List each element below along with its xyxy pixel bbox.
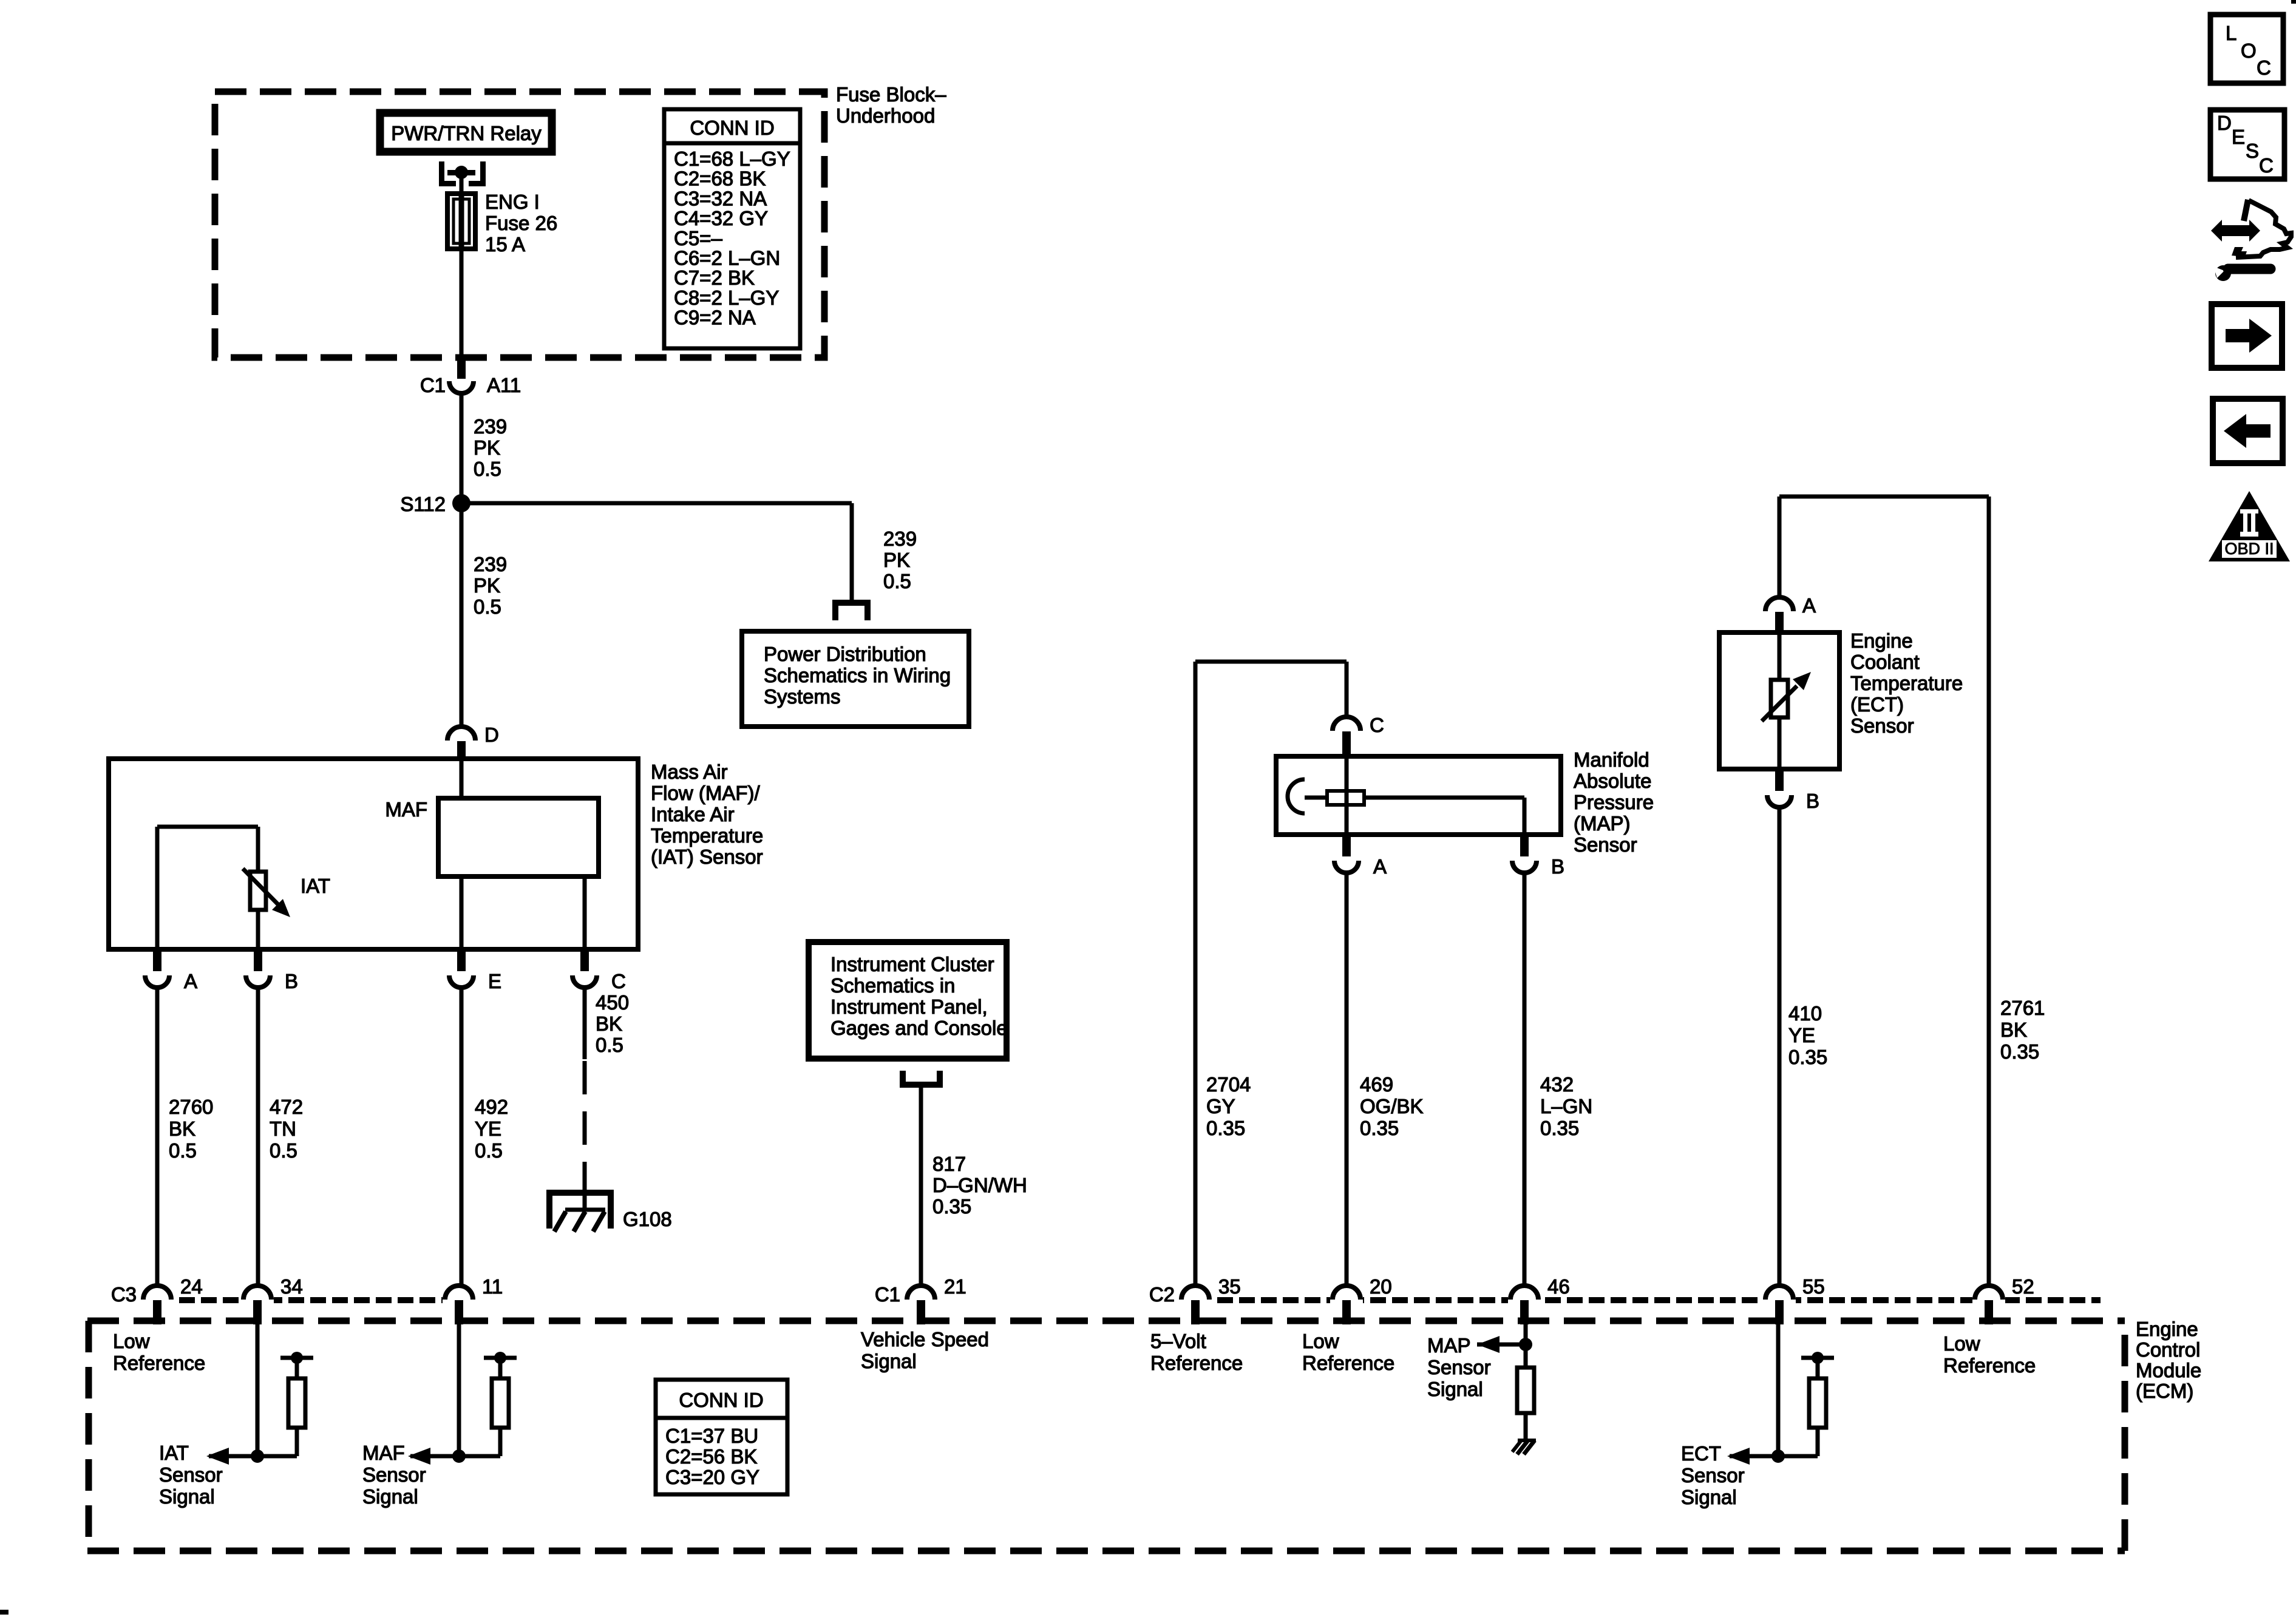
relay contact symbol: [439, 161, 486, 186]
svg-text:Control: Control: [2136, 1338, 2200, 1361]
svg-text:Schematics in Wiring: Schematics in Wiring: [764, 664, 951, 686]
svg-text:C6=2 L–GN: C6=2 L–GN: [674, 247, 780, 269]
svg-text:239: 239: [474, 553, 507, 575]
page corner mark (bottom left): [0, 1610, 8, 1615]
svg-text:35: 35: [1218, 1275, 1241, 1298]
connector pin B (MAP sensor): [1512, 835, 1564, 878]
svg-text:C: C: [1370, 714, 1384, 736]
svg-text:Reference: Reference: [113, 1352, 205, 1374]
label 472 TN 0.5: [270, 1096, 303, 1162]
svg-text:Signal: Signal: [362, 1485, 418, 1508]
svg-text:C: C: [2259, 154, 2274, 177]
svg-text:Absolute: Absolute: [1574, 770, 1651, 792]
svg-text:410: 410: [1788, 1002, 1822, 1025]
svg-text:24: 24: [180, 1275, 203, 1298]
conn id table (ECM) rows: [665, 1425, 759, 1488]
svg-text:Gages and Console: Gages and Console: [830, 1017, 1008, 1039]
svg-text:Fuse Block–: Fuse Block–: [836, 83, 946, 106]
svg-text:PK: PK: [474, 436, 500, 459]
svg-text:MAF: MAF: [385, 798, 427, 821]
off-page connector from instrument cluster: [900, 1071, 943, 1088]
label Low Reference (pin 20): [1302, 1330, 1394, 1374]
svg-text:Engine: Engine: [2136, 1318, 2198, 1340]
wire 450 BK (solid then dashed): [583, 989, 587, 1192]
svg-text:BK: BK: [2000, 1019, 2027, 1041]
splice S112: [400, 493, 470, 515]
svg-text:450: 450: [596, 991, 629, 1014]
svg-text:Signal: Signal: [861, 1350, 917, 1372]
svg-text:Manifold: Manifold: [1574, 748, 1649, 771]
svg-text:Mass Air: Mass Air: [651, 761, 728, 783]
svg-text:Instrument Panel,: Instrument Panel,: [830, 995, 988, 1018]
label 2704 GY 0.35: [1206, 1073, 1251, 1139]
wire 5-volt reference loop: [1195, 662, 1347, 1286]
svg-text:C5=–: C5=–: [674, 227, 722, 249]
wire 472 TN: [256, 989, 260, 1286]
svg-text:(IAT) Sensor: (IAT) Sensor: [651, 846, 763, 868]
svg-text:Signal: Signal: [1681, 1486, 1737, 1508]
wire relay to fuse: [460, 175, 464, 196]
ECM pin 55: [1763, 1275, 1825, 1324]
IAT loop wiring: [157, 827, 258, 949]
ECM pin 35 connector C2: [1149, 1275, 1241, 1324]
svg-text:2761: 2761: [2000, 997, 2045, 1019]
svg-text:IAT: IAT: [301, 875, 330, 897]
svg-text:GY: GY: [1206, 1095, 1235, 1117]
svg-text:C9=2 NA: C9=2 NA: [674, 307, 756, 329]
connector pin C (MAP sensor): [1333, 714, 1384, 758]
svg-text:E: E: [2232, 126, 2245, 148]
svg-text:432: 432: [1540, 1073, 1574, 1096]
svg-text:YE: YE: [1788, 1024, 1815, 1046]
conn id table rows: [674, 147, 790, 329]
wire 432 L-GN: [1523, 875, 1527, 1286]
svg-text:0.5: 0.5: [475, 1139, 503, 1162]
svg-text:20: 20: [1370, 1275, 1392, 1298]
ECM internal MAP signal network: [1477, 1324, 1534, 1440]
svg-text:5–Volt: 5–Volt: [1150, 1330, 1206, 1352]
svg-text:(MAP): (MAP): [1574, 812, 1631, 835]
svg-text:MAF: MAF: [362, 1442, 405, 1464]
svg-text:Sensor: Sensor: [1681, 1464, 1745, 1486]
label Vehicle Speed Signal: [861, 1328, 989, 1372]
ECM pin 21 connector C1: [875, 1275, 966, 1324]
svg-text:E: E: [488, 970, 501, 992]
svg-text:0.35: 0.35: [1540, 1117, 1579, 1139]
svg-text:469: 469: [1360, 1073, 1393, 1096]
svg-text:ECT: ECT: [1681, 1442, 1721, 1465]
label 817 D-GN/WH 0.35: [932, 1153, 1027, 1218]
svg-text:G108: G108: [623, 1208, 672, 1230]
svg-text:C3=20 GY: C3=20 GY: [665, 1466, 759, 1488]
svg-text:Instrument Cluster: Instrument Cluster: [830, 953, 994, 975]
relay PWR/TRN Relay box: [380, 113, 552, 152]
ECM pin 46: [1508, 1275, 1570, 1324]
svg-text:Flow (MAF)/: Flow (MAF)/: [651, 782, 760, 804]
MAF element box: [385, 798, 599, 876]
svg-text:Temperature: Temperature: [1850, 672, 1963, 694]
svg-text:YE: YE: [475, 1117, 501, 1140]
wire 239 PK upper: [460, 395, 464, 507]
svg-text:L: L: [2226, 22, 2237, 44]
svg-text:C: C: [611, 970, 626, 992]
svg-text:C3=32 NA: C3=32 NA: [674, 187, 767, 209]
label Mass Air Flow (MAF)/IAT Sensor: [651, 761, 763, 868]
ECM dashed enclosure: [87, 1321, 2125, 1551]
connector pin A (MAF sensor): [145, 949, 197, 992]
svg-text:Sensor: Sensor: [159, 1463, 223, 1486]
label Low Reference (pin 52): [1943, 1332, 2036, 1377]
svg-text:15 A: 15 A: [485, 233, 525, 256]
label 450 BK 0.5: [596, 991, 629, 1056]
page corner mark (top right): [2291, 0, 2296, 4]
wire MAF element to pin C: [583, 876, 587, 949]
svg-text:Low: Low: [113, 1330, 150, 1352]
label Engine Coolant Temperature (ECT) Sensor: [1850, 629, 1963, 737]
ECM pin 52: [1972, 1275, 2034, 1324]
MAF/IAT sensor box: [109, 759, 638, 949]
thermistor IAT: [243, 869, 330, 917]
svg-text:Sensor: Sensor: [1427, 1356, 1491, 1378]
svg-text:239: 239: [474, 415, 507, 438]
wire 2760 BK: [155, 989, 160, 1286]
svg-text:S112: S112: [400, 493, 446, 515]
connector pin A (ECT sensor): [1765, 594, 1816, 635]
svg-text:Sensor: Sensor: [362, 1463, 426, 1486]
wire through MAP element: [1345, 756, 1349, 835]
icon diagnostic tool: [2211, 200, 2291, 281]
label 432 L-GN 0.35: [1540, 1073, 1592, 1139]
svg-text:C2: C2: [1149, 1283, 1175, 1306]
label MAF Sensor Signal: [362, 1442, 426, 1508]
wire MAF element to pin E: [460, 876, 464, 949]
off-page connector to power distribution: [832, 600, 871, 620]
svg-text:Reference: Reference: [1150, 1352, 1243, 1374]
label MAP Sensor Signal: [1427, 1334, 1491, 1400]
svg-text:C1=37 BU: C1=37 BU: [665, 1425, 758, 1447]
wire S112 branch to power distribution: [461, 503, 852, 602]
ECM pin 11: [443, 1275, 503, 1324]
ECT sensor box: [1719, 632, 1839, 769]
ECM pin 34: [241, 1275, 303, 1324]
svg-text:OBD II: OBD II: [2224, 540, 2274, 558]
svg-text:C1=68 L–GY: C1=68 L–GY: [674, 147, 790, 170]
icon forward arrow box: [2212, 304, 2282, 368]
svg-text:Pressure: Pressure: [1574, 791, 1654, 813]
label 2760 BK 0.5: [169, 1096, 213, 1162]
svg-text:Low: Low: [1943, 1332, 1980, 1355]
ECM pin 24 connector C3: [111, 1275, 203, 1324]
svg-text:Fuse 26: Fuse 26: [485, 212, 557, 234]
connector pin A (MAP sensor): [1334, 835, 1387, 878]
svg-text:0.35: 0.35: [2000, 1040, 2039, 1063]
svg-text:Engine: Engine: [1850, 629, 1913, 652]
MAP sensor box: [1276, 756, 1561, 835]
svg-text:Schematics in: Schematics in: [830, 974, 955, 997]
svg-text:A: A: [1373, 855, 1387, 878]
MAP sensing element: [1327, 791, 1364, 805]
svg-text:CONN ID: CONN ID: [690, 117, 774, 139]
ground G108: [546, 1190, 672, 1232]
ECM internal ECT signal network: [1727, 1324, 1834, 1465]
svg-text:492: 492: [475, 1096, 508, 1118]
svg-text:(ECT): (ECT): [1850, 693, 1904, 716]
svg-text:472: 472: [270, 1096, 303, 1118]
svg-text:11: 11: [482, 1275, 503, 1298]
svg-text:C1: C1: [420, 374, 446, 396]
label Power Distribution Schematics: [764, 643, 951, 708]
wire MAP element to pin B: [1364, 798, 1524, 835]
ECM pin 20: [1330, 1275, 1392, 1324]
svg-text:Signal: Signal: [1427, 1378, 1483, 1400]
wire ECT loop top: [1779, 497, 1989, 1286]
svg-text:S: S: [2246, 140, 2259, 162]
label 469 OG/BK 0.35: [1360, 1073, 1424, 1139]
svg-text:A11: A11: [487, 374, 521, 396]
svg-text:D: D: [484, 724, 499, 746]
svg-text:817: 817: [932, 1153, 966, 1175]
fuse block-underhood dashed enclosure: [215, 92, 824, 358]
svg-text:Reference: Reference: [1302, 1352, 1394, 1374]
svg-text:L–GN: L–GN: [1540, 1095, 1592, 1117]
svg-text:C: C: [2257, 56, 2271, 79]
svg-text:C3: C3: [111, 1283, 137, 1306]
label ENG I Fuse 26 15 A: [485, 191, 557, 256]
svg-text:B: B: [285, 970, 298, 992]
svg-text:Low: Low: [1302, 1330, 1339, 1352]
svg-text:Sensor: Sensor: [1574, 833, 1637, 856]
svg-text:TN: TN: [270, 1117, 296, 1140]
svg-text:PK: PK: [474, 574, 500, 597]
MAP pressure port symbol: [1288, 779, 1327, 813]
wire fuse to C1: [460, 246, 464, 354]
label Engine Control Module (ECM): [2136, 1318, 2201, 1402]
svg-text:A: A: [1802, 594, 1816, 617]
conn id table (ECM): [656, 1380, 787, 1494]
label Low Reference (pin 24): [113, 1330, 205, 1374]
label ECT Sensor Signal: [1681, 1442, 1745, 1508]
svg-text:Reference: Reference: [1943, 1354, 2036, 1377]
svg-text:0.5: 0.5: [169, 1139, 197, 1162]
svg-text:C4=32 GY: C4=32 GY: [674, 207, 768, 229]
svg-text:0.5: 0.5: [883, 570, 911, 592]
svg-text:0.5: 0.5: [270, 1139, 297, 1162]
ECM connector row C2 (dotted): [1195, 1297, 2101, 1303]
svg-text:Intake Air: Intake Air: [651, 803, 735, 825]
svg-text:46: 46: [1547, 1275, 1570, 1298]
wire 239 PK lower: [460, 503, 464, 727]
svg-text:B: B: [1551, 855, 1564, 878]
svg-text:C7=2 BK: C7=2 BK: [674, 266, 755, 289]
svg-text:ENG I: ENG I: [485, 191, 540, 213]
svg-text:CONN ID: CONN ID: [679, 1389, 763, 1411]
wire 410 YE: [1778, 809, 1782, 1286]
label Instrument Cluster Schematics: [830, 953, 1008, 1039]
label 492 YE 0.5: [475, 1096, 508, 1162]
svg-text:C2=56 BK: C2=56 BK: [665, 1445, 757, 1468]
label 410 YE 0.35: [1788, 1002, 1827, 1068]
connector pin D (MAF sensor): [447, 724, 499, 761]
icon OBD II triangle: [2209, 491, 2290, 561]
svg-text:O: O: [2241, 39, 2257, 62]
svg-text:C2=68 BK: C2=68 BK: [674, 168, 766, 190]
svg-text:2760: 2760: [169, 1096, 213, 1118]
wire 469 OG/BK: [1345, 875, 1349, 1286]
svg-text:0.35: 0.35: [932, 1195, 971, 1218]
svg-text:0.35: 0.35: [1360, 1117, 1399, 1139]
svg-text:Underhood: Underhood: [836, 104, 935, 127]
thermistor ECT: [1762, 632, 1811, 769]
svg-text:IAT: IAT: [159, 1442, 189, 1464]
svg-text:0.35: 0.35: [1206, 1117, 1245, 1139]
svg-text:Vehicle Speed: Vehicle Speed: [861, 1328, 989, 1351]
svg-text:55: 55: [1802, 1275, 1825, 1298]
label 239 PK 0.5 (lower): [474, 553, 507, 618]
svg-text:Temperature: Temperature: [651, 824, 763, 847]
connector pin C (MAF sensor): [572, 949, 626, 992]
svg-text:0.5: 0.5: [596, 1034, 623, 1056]
instrument cluster reference box: [809, 942, 1007, 1059]
svg-text:Sensor: Sensor: [1850, 714, 1914, 737]
ECM internal MAF signal network: [408, 1324, 517, 1465]
wire D to MAF element: [460, 760, 464, 798]
connector pin B (ECT sensor): [1767, 769, 1819, 812]
power distribution reference box: [742, 631, 969, 727]
svg-text:239: 239: [883, 527, 917, 550]
svg-text:0.35: 0.35: [1788, 1046, 1827, 1068]
label Fuse Block-Underhood: [836, 83, 946, 127]
svg-text:0.5: 0.5: [474, 595, 501, 618]
connector pin E (MAF sensor): [449, 949, 501, 992]
wire 492 YE: [460, 989, 464, 1286]
svg-text:2704: 2704: [1206, 1073, 1251, 1096]
label 239 PK 0.5 (upper): [474, 415, 507, 480]
svg-text:BK: BK: [169, 1117, 195, 1140]
ECM internal ground: [1512, 1440, 1536, 1454]
icon DESC box: [2210, 110, 2284, 179]
svg-text:BK: BK: [596, 1012, 622, 1035]
svg-text:Coolant: Coolant: [1850, 651, 1920, 673]
svg-text:A: A: [184, 970, 197, 992]
fuse F26 ENG I 15A: [447, 194, 475, 249]
label IAT Sensor Signal: [159, 1442, 223, 1508]
label 5-Volt Reference: [1150, 1330, 1243, 1374]
svg-text:B: B: [1806, 790, 1819, 812]
conn id table (fuse block): [664, 109, 800, 348]
svg-text:OG/BK: OG/BK: [1360, 1095, 1424, 1117]
svg-text:(ECM): (ECM): [2136, 1380, 2193, 1402]
svg-text:PK: PK: [883, 549, 910, 571]
svg-text:52: 52: [2012, 1275, 2034, 1298]
ECM connector row C3 (dotted): [157, 1297, 459, 1303]
svg-text:Power Distribution: Power Distribution: [764, 643, 926, 665]
connector C1 pin A11: [420, 354, 521, 396]
svg-text:Signal: Signal: [159, 1485, 215, 1508]
wire 817 D-GN/WH: [919, 1088, 923, 1286]
icon back arrow box: [2213, 399, 2283, 463]
label 239 PK 0.5 (branch): [883, 527, 917, 592]
svg-text:0.5: 0.5: [474, 458, 501, 480]
label Manifold Absolute Pressure (MAP) Sensor: [1574, 748, 1654, 856]
svg-text:D: D: [2217, 112, 2232, 134]
svg-text:Module: Module: [2136, 1359, 2201, 1381]
svg-text:MAP: MAP: [1427, 1334, 1471, 1357]
svg-text:C8=2 L–GY: C8=2 L–GY: [674, 286, 779, 309]
svg-text:21: 21: [944, 1275, 966, 1298]
ECM internal IAT signal network: [206, 1324, 313, 1465]
svg-text:Systems: Systems: [764, 685, 841, 708]
svg-text:D–GN/WH: D–GN/WH: [932, 1174, 1027, 1196]
svg-text:34: 34: [280, 1275, 303, 1298]
connector pin B (MAF sensor): [246, 949, 298, 992]
label 2761 BK 0.35: [2000, 997, 2045, 1063]
svg-text:PWR/TRN Relay: PWR/TRN Relay: [391, 122, 542, 144]
svg-text:C1: C1: [875, 1283, 900, 1306]
icon LOC box: [2210, 15, 2283, 83]
